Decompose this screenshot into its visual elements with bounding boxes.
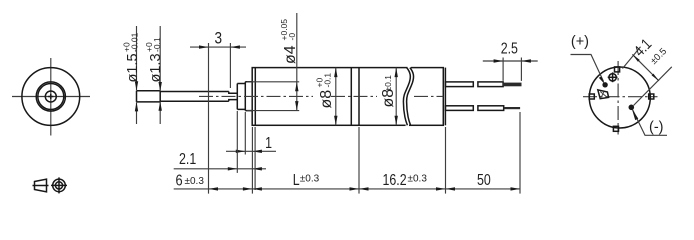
svg-text:ø1.5: ø1.5 xyxy=(125,53,141,82)
svg-text:2.1: 2.1 xyxy=(179,150,196,168)
svg-text:-0.01: -0.01 xyxy=(129,32,139,52)
svg-text:L: L xyxy=(293,171,300,189)
svg-text:-0: -0 xyxy=(287,33,297,41)
svg-text:±0.3: ±0.3 xyxy=(185,176,205,187)
svg-text:(+): (+) xyxy=(571,34,589,50)
svg-text:50: 50 xyxy=(477,171,491,189)
svg-text:6: 6 xyxy=(176,172,183,190)
svg-text:-0.1: -0.1 xyxy=(323,73,333,88)
svg-text:3: 3 xyxy=(215,29,223,48)
svg-text:16.2: 16.2 xyxy=(383,171,407,189)
svg-text:ø1.3: ø1.3 xyxy=(148,53,164,82)
svg-text:±0.3: ±0.3 xyxy=(408,174,428,185)
svg-text:2.5: 2.5 xyxy=(501,39,518,57)
svg-text:(-): (-) xyxy=(649,119,664,135)
svg-text:ø8: ø8 xyxy=(318,90,335,109)
svg-text:±0.3: ±0.3 xyxy=(300,174,320,185)
svg-text:±0.1: ±0.1 xyxy=(383,75,393,92)
svg-text:-0.1: -0.1 xyxy=(152,37,162,52)
svg-text:ø4: ø4 xyxy=(282,45,299,64)
svg-text:1: 1 xyxy=(265,134,272,152)
